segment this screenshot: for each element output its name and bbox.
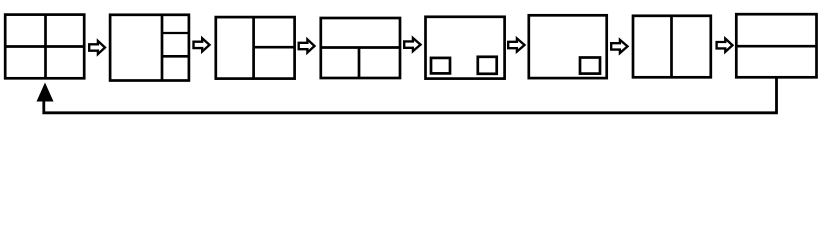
feedback wire from box 8 bottom to loop line <box>44 77 777 113</box>
box 4: window with top band and split bottom row <box>321 18 400 78</box>
box 5: window containing two small boxes <box>426 17 505 79</box>
box 3: window with right column split in two <box>216 17 295 79</box>
arrow 6 <box>611 40 627 53</box>
box 1: window split into 2x2 grid <box>5 15 84 79</box>
arrow 3 <box>299 39 315 52</box>
arrow 2 <box>194 38 210 51</box>
box 6: window containing one small box at bottom right <box>529 15 607 78</box>
arrow 7 <box>717 39 733 52</box>
arrow 5 <box>508 38 524 51</box>
arrow 4 <box>404 38 420 51</box>
box 8: window split into two rows <box>736 14 816 77</box>
box 7: window split into two columns <box>633 16 711 78</box>
box 2: window with right column of 3 cells <box>110 15 189 81</box>
feedback arrowhead pointing up at box 1 <box>37 83 54 102</box>
arrow 1 <box>89 41 105 54</box>
